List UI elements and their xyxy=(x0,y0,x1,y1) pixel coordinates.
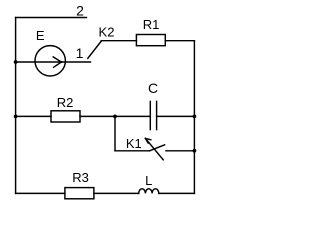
node dot K1 branch junction xyxy=(113,115,117,119)
svg-text:C: C xyxy=(148,80,158,96)
wire left rail xyxy=(15,18,17,194)
inductor L coil xyxy=(139,189,159,194)
resistor R1 xyxy=(136,35,165,46)
wire K1 branch vertical xyxy=(114,116,116,150)
node dot K1 row on right rail xyxy=(193,149,197,153)
wire L to right rail xyxy=(159,192,195,194)
resistor R3 xyxy=(65,188,94,199)
svg-text:2: 2 xyxy=(76,2,84,18)
capacitor C plates xyxy=(149,101,151,129)
wire capacitor to right rail xyxy=(157,115,195,117)
wire R3 to L xyxy=(94,192,139,194)
svg-text:K2: K2 xyxy=(99,25,115,40)
switch K1 blade xyxy=(150,145,165,151)
wire left rail to R2 xyxy=(16,115,51,117)
wire K1 to right rail xyxy=(166,150,194,152)
node dot E row on left rail xyxy=(14,60,18,64)
source E arrow head xyxy=(53,57,61,62)
wire source row E xyxy=(16,61,91,63)
wire K1 branch horizontal xyxy=(115,150,150,152)
svg-text:R3: R3 xyxy=(72,170,89,185)
svg-text:L: L xyxy=(145,173,152,188)
svg-text:R2: R2 xyxy=(57,95,74,110)
svg-text:E: E xyxy=(36,28,45,43)
switch K2 blade xyxy=(88,41,101,58)
wire R1 to right rail xyxy=(165,40,194,42)
wire bottom left to R3 xyxy=(16,192,65,194)
switch K1 actuation arrow xyxy=(145,138,163,159)
resistor R2 xyxy=(51,111,80,122)
node dot C row on right rail xyxy=(193,115,197,119)
source E arrow tip dot xyxy=(60,61,62,63)
wire R2 to capacitor xyxy=(80,115,150,117)
wire K2 to R1 xyxy=(101,40,136,42)
svg-text:1: 1 xyxy=(76,45,84,61)
wire right rail xyxy=(193,41,195,194)
svg-text:K1: K1 xyxy=(126,136,142,151)
source E circle xyxy=(35,46,65,76)
svg-text:R1: R1 xyxy=(143,17,160,32)
wire top (contact 2 branch) xyxy=(16,17,87,19)
node dot R2 row on left rail xyxy=(14,115,18,119)
